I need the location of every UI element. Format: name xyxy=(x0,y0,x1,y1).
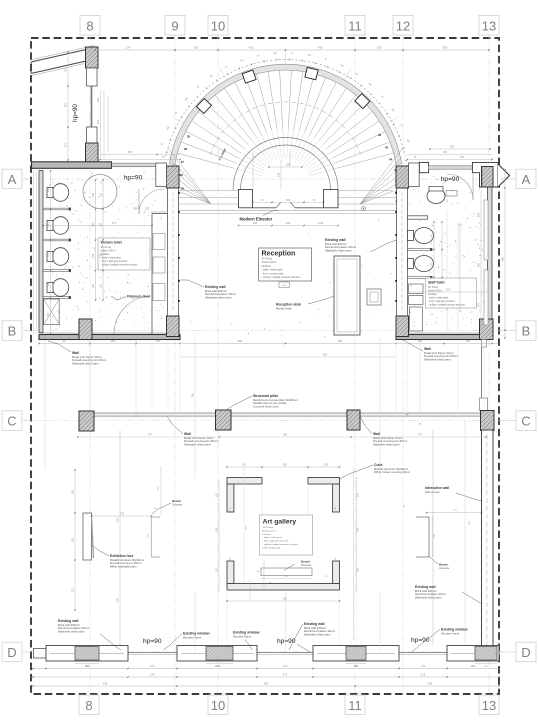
svg-text:170: 170 xyxy=(150,664,155,668)
label Existing wall S-mid xyxy=(289,622,336,650)
svg-text:44: 44 xyxy=(389,158,393,162)
svg-text:110: 110 xyxy=(357,567,360,572)
staircase extension lines xyxy=(172,51,399,123)
svg-text:150: 150 xyxy=(47,222,50,227)
svg-text:B: B xyxy=(8,324,17,339)
wall interactive east xyxy=(482,430,494,652)
svg-text:D: D xyxy=(521,645,530,660)
svg-text:Concrete: Concrete xyxy=(172,503,183,506)
svg-text:192: 192 xyxy=(283,464,288,467)
top-left dimension chains xyxy=(64,51,109,161)
cabinet staff xyxy=(409,284,424,305)
svg-text:D: D xyxy=(7,645,16,660)
cube corner dims xyxy=(230,507,337,561)
svg-text:960: 960 xyxy=(238,340,243,343)
svg-text:35: 35 xyxy=(187,135,191,139)
svg-text:Concrete finish 2mm: Concrete finish 2mm xyxy=(253,405,279,409)
svg-text:179: 179 xyxy=(120,513,125,516)
row C lower dim chain xyxy=(77,434,487,438)
pillar P2 xyxy=(86,143,99,164)
svg-text:340: 340 xyxy=(283,434,288,437)
wall staff north jog xyxy=(419,162,428,172)
svg-text:150: 150 xyxy=(286,198,291,202)
svg-text:159: 159 xyxy=(277,172,281,177)
svg-text:37: 37 xyxy=(181,160,185,164)
window S4 xyxy=(447,646,499,662)
svg-text:210: 210 xyxy=(145,208,150,211)
svg-text:11: 11 xyxy=(348,19,362,34)
pillar P7 women south xyxy=(79,319,92,340)
svg-text:Art gallery: Art gallery xyxy=(263,519,297,526)
svg-text:hp=90: hp=90 xyxy=(72,104,79,122)
west faint line below B xyxy=(44,340,46,470)
elevator lobby front wall xyxy=(253,202,324,208)
svg-text:150: 150 xyxy=(286,221,291,225)
svg-text:156: 156 xyxy=(443,151,448,154)
west room north dims xyxy=(99,151,181,160)
svg-text:279: 279 xyxy=(126,46,131,50)
svg-text:115: 115 xyxy=(216,492,219,497)
svg-text:13: 13 xyxy=(482,19,496,34)
svg-text:430: 430 xyxy=(318,46,323,50)
door swing staff N xyxy=(447,174,473,200)
staircase right winder treads xyxy=(360,148,403,204)
corridor east stud ticks xyxy=(395,192,397,302)
staff north dims xyxy=(406,146,493,161)
elevator dimension chain xyxy=(238,198,339,227)
svg-text:- floor = light grey terrazzo: - floor = light grey terrazzo xyxy=(428,300,455,303)
staircase spotlight boxes xyxy=(197,67,370,113)
svg-text:430: 430 xyxy=(428,682,433,686)
door frame stair-right xyxy=(409,163,420,187)
svg-text:114: 114 xyxy=(458,224,462,227)
svg-text:290: 290 xyxy=(72,489,75,494)
ramp wall upper xyxy=(31,45,95,62)
svg-text:192: 192 xyxy=(357,527,360,532)
svg-text:981: 981 xyxy=(192,392,195,397)
svg-text:270: 270 xyxy=(72,587,75,592)
svg-text:170: 170 xyxy=(478,302,481,307)
sink staff wall xyxy=(450,284,464,304)
svg-text:8: 8 xyxy=(86,19,93,34)
label Bench west xyxy=(152,499,183,514)
label hp=90 s3 xyxy=(411,637,430,644)
entrance arrow NE xyxy=(498,164,510,187)
svg-text:C: C xyxy=(7,414,16,429)
svg-text:- walls = white paint: - walls = white paint xyxy=(262,269,283,272)
wall corridor east side xyxy=(397,188,408,316)
svg-text:- floor = light grey terrazzo: - floor = light grey terrazzo xyxy=(263,540,289,543)
round table women xyxy=(83,175,117,209)
svg-text:150: 150 xyxy=(92,283,95,288)
wall row C xyxy=(86,413,486,426)
art gallery cube walls xyxy=(227,478,340,591)
staircase arc tick marks xyxy=(166,59,408,161)
svg-text:150: 150 xyxy=(100,253,103,258)
reception side table xyxy=(367,289,381,305)
svg-text:11: 11 xyxy=(348,698,362,713)
pillar P6 staff NE xyxy=(482,167,493,188)
svg-text:430: 430 xyxy=(264,682,269,686)
svg-text:Concrete: Concrete xyxy=(301,564,312,567)
door frame rect 2 xyxy=(87,127,98,143)
svg-text:Modern Elevator: Modern Elevator xyxy=(240,216,273,221)
pillar C2 xyxy=(216,410,232,430)
label Existing window S3 xyxy=(412,628,468,653)
women east wall niches xyxy=(153,234,165,301)
svg-text:hp=90: hp=90 xyxy=(441,176,460,183)
east margin dim chain xyxy=(502,169,506,339)
svg-text:150: 150 xyxy=(72,537,75,542)
svg-text:Bench: Bench xyxy=(439,563,448,567)
bench west xyxy=(151,517,160,557)
svg-text:115: 115 xyxy=(357,492,360,497)
svg-text:- ceiling = original concrete: - ceiling = original concrete structure xyxy=(262,276,301,279)
label Wall left xyxy=(48,341,107,366)
svg-text:208: 208 xyxy=(96,143,100,148)
svg-text:111: 111 xyxy=(64,142,68,146)
elevator shaft right xyxy=(324,190,339,208)
svg-text:Wooden frame: Wooden frame xyxy=(233,634,252,638)
women room interior dims xyxy=(42,179,153,301)
label hp=90 rotated xyxy=(72,104,79,122)
label Existing wall SE xyxy=(415,585,482,604)
label box Staff toilet xyxy=(426,278,477,308)
svg-text:white metallic grid: white metallic grid xyxy=(263,546,281,549)
svg-text:White Corian covering 10mm: White Corian covering 10mm xyxy=(374,470,411,474)
label hp=90 staff xyxy=(441,176,460,183)
pillar P1 ramp xyxy=(86,47,99,68)
south wall stub W xyxy=(34,649,47,659)
svg-text:12: 12 xyxy=(396,19,410,34)
svg-text:Reception: Reception xyxy=(262,250,296,257)
svg-text:175: 175 xyxy=(421,673,426,677)
pillar P10 staff SE xyxy=(480,319,494,340)
ramp end tick xyxy=(30,62,32,74)
svg-text:Wooden frame: Wooden frame xyxy=(441,631,460,635)
svg-text:Concrete: Concrete xyxy=(439,567,450,570)
svg-text:8: 8 xyxy=(85,698,92,713)
label Wall C right xyxy=(360,416,408,447)
svg-text:430: 430 xyxy=(103,682,108,686)
svg-text:150: 150 xyxy=(92,222,95,227)
svg-text:- floor = ceramic tiles: - floor = ceramic tiles xyxy=(262,272,285,275)
svg-text:160: 160 xyxy=(253,221,258,225)
svg-text:275: 275 xyxy=(117,517,120,522)
svg-text:116: 116 xyxy=(216,527,219,532)
hall guide lines xyxy=(90,340,484,418)
svg-text:300: 300 xyxy=(478,262,481,267)
staff toilet fixtures xyxy=(407,187,445,279)
svg-text:Hmax=4.20 m: Hmax=4.20 m xyxy=(262,261,277,264)
bench east vertical xyxy=(416,517,429,557)
svg-text:962: 962 xyxy=(323,354,328,357)
window dims xyxy=(75,664,497,668)
lobby south wall line xyxy=(179,211,397,214)
svg-text:Washable white paint: Washable white paint xyxy=(205,296,232,300)
svg-text:150: 150 xyxy=(47,252,50,257)
pillar P9 corridor east bottom xyxy=(396,316,409,337)
label box Reception xyxy=(259,248,312,288)
svg-text:Finishes:: Finishes: xyxy=(262,265,272,268)
window sill staff xyxy=(429,166,473,169)
pillar P3 stair left base xyxy=(167,166,180,188)
svg-text:- ceiling = original concrete: - ceiling = original concrete structure xyxy=(101,264,139,267)
grid bubbles bottom 8-13 xyxy=(79,695,499,715)
staircase step numbers xyxy=(180,133,399,204)
cube interior guide xyxy=(244,467,248,583)
corridor wall stud ticks xyxy=(178,192,180,302)
label box Women toilet xyxy=(98,238,150,270)
door swing women SE xyxy=(114,296,152,334)
svg-text:White washable paint: White washable paint xyxy=(110,565,137,569)
svg-text:Washable white paint: Washable white paint xyxy=(72,362,99,366)
svg-text:105: 105 xyxy=(96,119,100,124)
east facade window leafs xyxy=(484,200,488,325)
staircase straight flight treads xyxy=(168,191,404,205)
window S1 xyxy=(46,646,128,662)
svg-text:150: 150 xyxy=(47,187,50,192)
label box Art gallery xyxy=(260,515,313,555)
svg-text:150: 150 xyxy=(100,222,103,227)
svg-text:960: 960 xyxy=(338,340,343,343)
wall women-toilet east partition xyxy=(151,212,168,335)
label Cube xyxy=(340,463,411,479)
svg-text:Washable white paint: Washable white paint xyxy=(184,443,211,447)
south dimension chains xyxy=(32,664,500,687)
label Exhibition box xyxy=(92,545,145,569)
east wall B-C segment xyxy=(480,340,488,411)
svg-text:170: 170 xyxy=(283,664,288,668)
staircase left winder treads xyxy=(168,148,211,204)
svg-text:115: 115 xyxy=(324,464,329,467)
door swing women NE xyxy=(139,189,164,214)
concrete stipple texture xyxy=(46,172,487,341)
svg-text:hp=90: hp=90 xyxy=(124,175,143,182)
svg-text:150: 150 xyxy=(111,340,116,343)
svg-text:- walls = white paint: - walls = white paint xyxy=(428,297,448,300)
wall segment W-col xyxy=(91,86,93,127)
exhibition dims xyxy=(72,466,483,611)
counter staff north xyxy=(446,191,457,197)
cube dimension chains xyxy=(216,464,360,641)
svg-text:C: C xyxy=(521,414,530,429)
wall women-toilet north xyxy=(32,162,112,169)
window sill women xyxy=(112,162,156,169)
svg-text:Finishes:: Finishes: xyxy=(428,294,438,296)
svg-text:10: 10 xyxy=(211,19,225,34)
label Interactive wall xyxy=(425,486,482,501)
svg-text:150: 150 xyxy=(92,253,95,258)
stair centre dimensions xyxy=(253,152,303,189)
svg-text:- walls = white paint: - walls = white paint xyxy=(263,536,283,539)
svg-text:Sl= 14mq: Sl= 14mq xyxy=(428,287,438,289)
svg-text:13: 13 xyxy=(482,698,496,713)
women room west dim chain xyxy=(34,170,52,335)
svg-text:10: 10 xyxy=(211,698,225,713)
svg-text:214: 214 xyxy=(478,212,481,217)
women toilet fixtures xyxy=(43,184,71,299)
label Wall C left xyxy=(167,416,219,447)
wall women-toilet south xyxy=(39,333,180,340)
reception desk xyxy=(334,256,360,335)
label hp=90 women xyxy=(124,175,143,182)
svg-text:45: 45 xyxy=(385,146,389,150)
row B dimension chains xyxy=(38,340,500,357)
svg-text:380: 380 xyxy=(471,664,476,668)
svg-text:A: A xyxy=(522,172,531,187)
staircase outer stringer band xyxy=(169,64,401,164)
label Existing wall S-left xyxy=(58,619,121,650)
svg-text:430: 430 xyxy=(249,46,254,50)
bench inside cube xyxy=(261,568,312,576)
label Existing window S2 xyxy=(233,631,260,651)
svg-text:213: 213 xyxy=(156,340,161,343)
label Structural pillar xyxy=(226,394,298,410)
svg-text:140: 140 xyxy=(96,97,100,102)
wall staff east xyxy=(488,174,493,339)
staircase inner landing arcs xyxy=(233,138,338,191)
label Filomuro door xyxy=(111,295,151,301)
svg-text:Washable white paint: Washable white paint xyxy=(325,249,352,253)
svg-text:171: 171 xyxy=(112,221,117,225)
svg-text:110: 110 xyxy=(242,464,247,467)
shaft box women SW xyxy=(44,299,60,325)
svg-text:Washable white paint: Washable white paint xyxy=(415,596,442,600)
svg-text:Washable white paint: Washable white paint xyxy=(373,443,400,447)
staircase walk line xyxy=(210,102,360,155)
label hp=90 s1 xyxy=(143,638,162,645)
staff faint vline xyxy=(447,210,458,330)
svg-text:150: 150 xyxy=(418,340,423,343)
svg-text:300: 300 xyxy=(450,146,455,149)
label Existing wall W xyxy=(180,280,237,300)
staircase outer dashed arc xyxy=(166,60,406,157)
svg-text:LED screen: LED screen xyxy=(425,490,440,494)
window S3 xyxy=(313,646,399,662)
svg-text:377: 377 xyxy=(148,434,153,437)
wall staff south xyxy=(396,333,492,340)
staircase treads radiating xyxy=(177,70,393,176)
cube extension lines xyxy=(227,484,340,646)
svg-text:960: 960 xyxy=(502,256,505,261)
svg-text:Hmax=4.20 m: Hmax=4.20 m xyxy=(263,530,277,532)
svg-text:150: 150 xyxy=(100,192,103,197)
elevator shaft left xyxy=(239,190,253,208)
label hp=90 s2 xyxy=(277,638,310,652)
lobby circle marker xyxy=(362,207,366,211)
svg-text:Hmax=4.20 m: Hmax=4.20 m xyxy=(428,291,442,293)
wall staff NE corner xyxy=(472,162,498,187)
svg-text:Women toilet: Women toilet xyxy=(101,241,123,245)
svg-text:195: 195 xyxy=(133,208,138,211)
svg-text:+0.0: +0.0 xyxy=(282,285,287,287)
label Existing window S1 xyxy=(163,632,210,651)
exhibition box xyxy=(83,513,94,560)
cabinet staff2 xyxy=(410,307,423,331)
door frame stair-left xyxy=(156,163,167,187)
label Bench cube xyxy=(284,560,312,571)
label Modern Elevator xyxy=(240,211,279,222)
door frame rect top-left xyxy=(87,68,98,86)
pillar C3 xyxy=(347,410,360,430)
svg-text:hp=90: hp=90 xyxy=(143,638,162,645)
svg-text:150: 150 xyxy=(92,192,95,197)
ramp wall lower xyxy=(31,61,86,76)
grid bubbles top 8-13 xyxy=(80,16,499,39)
svg-text:300: 300 xyxy=(466,340,471,343)
svg-text:150: 150 xyxy=(377,46,382,50)
svg-text:170: 170 xyxy=(421,664,426,668)
grid bubbles rows A-D xyxy=(2,169,536,662)
pillar P8 corridor west bottom xyxy=(167,316,180,337)
svg-text:- walls = white paint: - walls = white paint xyxy=(101,257,121,260)
svg-text:46: 46 xyxy=(378,133,382,137)
svg-text:Staff toilet: Staff toilet xyxy=(428,281,445,285)
svg-text:170: 170 xyxy=(47,312,50,317)
svg-text:9: 9 xyxy=(171,19,178,34)
wall staff partition xyxy=(408,216,428,219)
svg-text:Washable white paint: Washable white paint xyxy=(304,633,331,637)
window S2 xyxy=(177,646,257,662)
svg-text:156: 156 xyxy=(128,151,133,154)
svg-text:377: 377 xyxy=(418,434,423,437)
svg-text:160: 160 xyxy=(319,221,324,225)
svg-text:Sl= 74mq: Sl= 74mq xyxy=(262,257,273,260)
svg-text:Filomuro door: Filomuro door xyxy=(127,295,151,299)
svg-text:110: 110 xyxy=(216,567,219,572)
drawing boundary dashed border xyxy=(31,38,499,694)
pillar P4 stair right base xyxy=(396,166,409,188)
svg-text:38: 38 xyxy=(180,173,184,177)
svg-text:200: 200 xyxy=(460,156,465,159)
svg-text:175: 175 xyxy=(150,673,155,677)
svg-text:175: 175 xyxy=(283,673,288,677)
hall faint verticals xyxy=(192,338,381,652)
south wall line xyxy=(33,653,499,655)
svg-text:214: 214 xyxy=(446,289,451,292)
svg-text:192: 192 xyxy=(194,46,199,50)
staff interior dims xyxy=(408,221,488,292)
svg-text:hp=90: hp=90 xyxy=(411,637,430,644)
top dimension chain xyxy=(94,46,490,51)
svg-text:39: 39 xyxy=(181,187,185,191)
svg-text:Washable white paint: Washable white paint xyxy=(58,630,85,634)
staff room dim chains xyxy=(460,190,481,330)
svg-text:Wooden frame: Wooden frame xyxy=(183,635,202,639)
staircase arc dimension numbers xyxy=(161,53,409,146)
svg-text:A: A xyxy=(8,172,17,187)
pillar C1 xyxy=(79,411,94,431)
wall corridor west side xyxy=(168,188,179,316)
svg-text:Washable white paint: Washable white paint xyxy=(424,358,451,362)
svg-text:Finishes:: Finishes: xyxy=(263,534,272,536)
label Bench east xyxy=(429,556,450,570)
label Existing wall NE xyxy=(325,238,397,253)
svg-text:167: 167 xyxy=(64,102,68,107)
pillar C4 right wall xyxy=(481,411,495,431)
svg-text:380: 380 xyxy=(443,46,448,50)
svg-text:Marble finish: Marble finish xyxy=(276,307,292,311)
svg-text:B: B xyxy=(522,324,531,339)
svg-text:- ceiling = original concrete: - ceiling = original concrete structure xyxy=(263,543,299,546)
label Reception desk xyxy=(276,296,334,311)
bottom vertical dims xyxy=(117,420,466,652)
svg-text:36: 36 xyxy=(184,147,188,151)
label Wall right xyxy=(403,340,459,362)
wall women-toilet west xyxy=(39,171,43,333)
svg-text:150: 150 xyxy=(100,283,103,288)
